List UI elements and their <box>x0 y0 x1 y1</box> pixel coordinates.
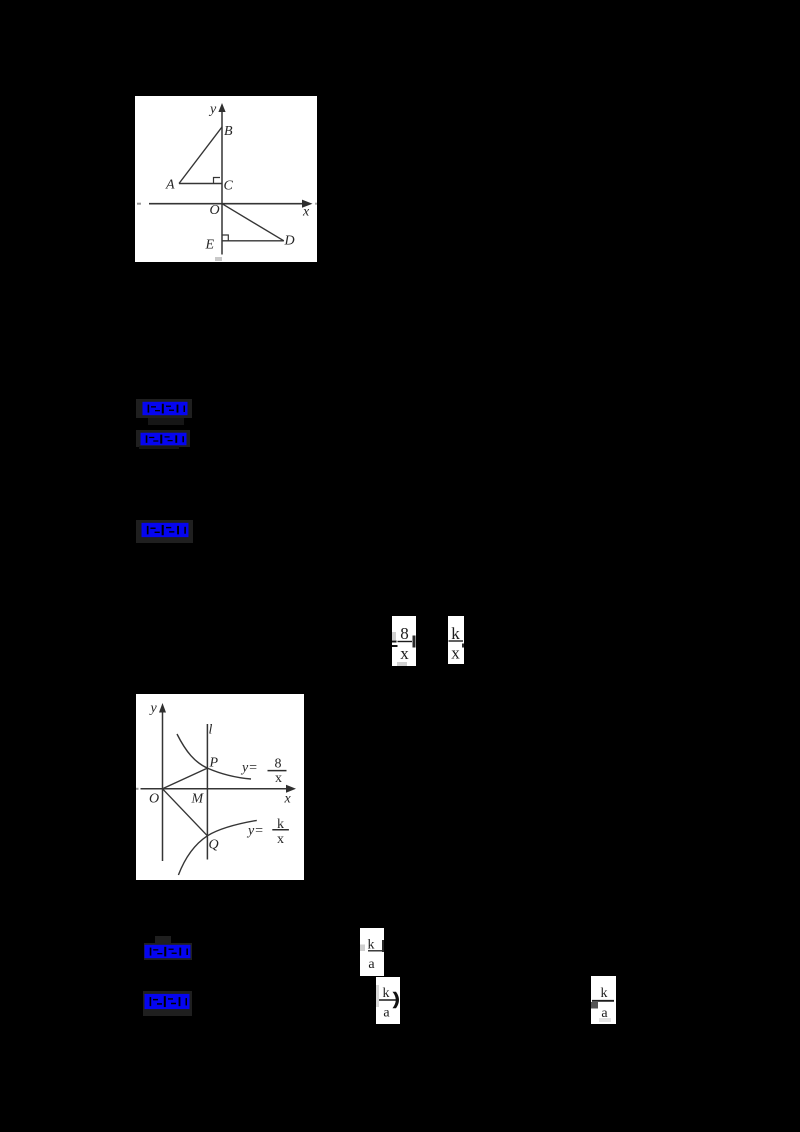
svg-text:l: l <box>209 723 213 738</box>
svg-text:y=: y= <box>240 761 258 776</box>
svg-text:k: k <box>451 624 460 643</box>
svg-text:E: E <box>205 238 215 253</box>
svg-text:y: y <box>208 102 217 117</box>
svg-text:P: P <box>209 756 219 771</box>
svg-text:a: a <box>368 957 375 972</box>
svg-text:O: O <box>210 203 220 218</box>
svg-text:M: M <box>191 792 205 807</box>
svg-text:y: y <box>149 701 158 716</box>
svg-text:y=: y= <box>246 824 264 839</box>
svg-text:8: 8 <box>275 757 282 772</box>
svg-text:x: x <box>400 644 409 663</box>
svg-text:B: B <box>224 124 233 139</box>
svg-text:D: D <box>284 234 295 249</box>
svg-text:x: x <box>451 644 460 663</box>
svg-text:k: k <box>601 986 608 1001</box>
svg-text:x: x <box>284 792 292 807</box>
svg-text:O: O <box>149 792 159 807</box>
svg-text:k: k <box>383 986 390 1001</box>
svg-text:x: x <box>302 205 310 220</box>
svg-text:x: x <box>275 771 282 786</box>
svg-text:C: C <box>224 179 234 194</box>
svg-text:Q: Q <box>209 838 219 853</box>
svg-text:8: 8 <box>400 624 409 643</box>
svg-text:a: a <box>383 1006 390 1021</box>
svg-text:x: x <box>277 832 284 847</box>
svg-text:A: A <box>165 178 175 193</box>
